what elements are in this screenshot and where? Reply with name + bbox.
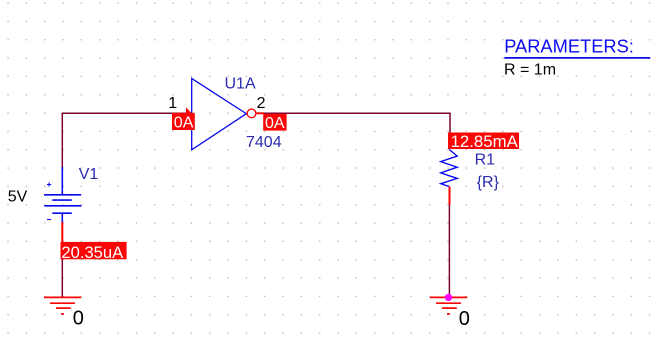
svg-text:0A: 0A bbox=[174, 114, 194, 131]
svg-text:R = 1m: R = 1m bbox=[504, 62, 556, 79]
svg-text:20.35uA: 20.35uA bbox=[61, 243, 124, 262]
svg-text:U1A: U1A bbox=[225, 76, 256, 93]
svg-text:PARAMETERS:: PARAMETERS: bbox=[504, 35, 634, 56]
svg-text:{R}: {R} bbox=[477, 174, 500, 191]
svg-text:0: 0 bbox=[73, 308, 84, 330]
svg-text:1: 1 bbox=[168, 95, 177, 112]
svg-text:0: 0 bbox=[459, 308, 470, 330]
svg-text:5V: 5V bbox=[8, 188, 28, 205]
svg-text:R1: R1 bbox=[475, 152, 496, 169]
svg-text:7404: 7404 bbox=[246, 134, 282, 151]
svg-text:12.85mA: 12.85mA bbox=[451, 132, 519, 151]
svg-text:2: 2 bbox=[257, 95, 266, 112]
svg-text:0A: 0A bbox=[265, 115, 285, 132]
svg-text:V1: V1 bbox=[79, 166, 99, 183]
